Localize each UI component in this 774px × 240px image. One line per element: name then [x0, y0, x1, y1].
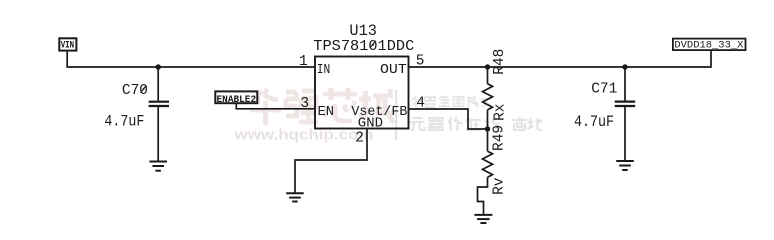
svg-text:C70: C70	[122, 83, 148, 99]
svg-text:GND: GND	[358, 115, 383, 131]
svg-text:Rx: Rx	[493, 103, 509, 121]
svg-text:1: 1	[299, 54, 308, 70]
svg-text:EN: EN	[318, 104, 335, 120]
svg-text:Rv: Rv	[491, 177, 507, 195]
svg-text:www.hqchip.com: www.hqchip.com	[233, 128, 373, 144]
svg-text:3: 3	[300, 96, 309, 112]
svg-text:2: 2	[355, 131, 364, 147]
svg-text:TPS78101DDC: TPS78101DDC	[313, 38, 414, 55]
svg-text:OUT: OUT	[380, 62, 407, 78]
svg-text:VIN: VIN	[61, 39, 74, 50]
svg-text:4.7uF: 4.7uF	[574, 113, 614, 131]
svg-text:DVDD18_33_X: DVDD18_33_X	[674, 41, 743, 52]
svg-text:5: 5	[416, 53, 425, 69]
svg-text:IN: IN	[317, 62, 331, 78]
svg-text:C71: C71	[591, 81, 617, 97]
svg-text:4: 4	[416, 95, 425, 111]
svg-text:ENABLE2: ENABLE2	[217, 94, 257, 105]
svg-text:R49: R49	[492, 125, 508, 151]
svg-text:4.7uF: 4.7uF	[104, 113, 144, 131]
svg-text:R48: R48	[492, 49, 508, 75]
